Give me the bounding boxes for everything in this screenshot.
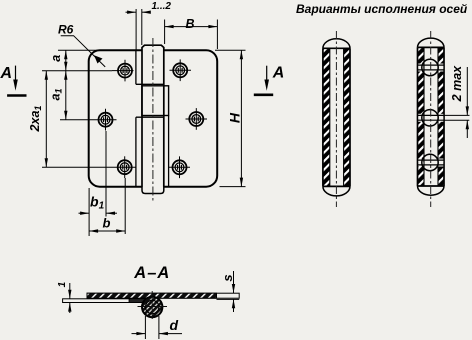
svg-text:d: d bbox=[170, 317, 179, 333]
svg-text:R6: R6 bbox=[58, 23, 74, 37]
svg-text:1: 1 bbox=[57, 281, 68, 287]
svg-text:A: A bbox=[272, 64, 285, 81]
svg-text:A–A: A–A bbox=[133, 264, 170, 282]
svg-text:1...2: 1...2 bbox=[152, 1, 172, 12]
svg-text:H: H bbox=[227, 112, 243, 123]
svg-text:a: a bbox=[49, 55, 63, 62]
svg-text:B: B bbox=[186, 17, 195, 31]
svg-text:Варианты исполнения осей: Варианты исполнения осей bbox=[296, 2, 468, 16]
svg-text:b: b bbox=[103, 216, 111, 231]
svg-text:s: s bbox=[220, 274, 235, 281]
svg-text:2 max: 2 max bbox=[450, 65, 464, 102]
svg-text:A: A bbox=[0, 65, 12, 82]
